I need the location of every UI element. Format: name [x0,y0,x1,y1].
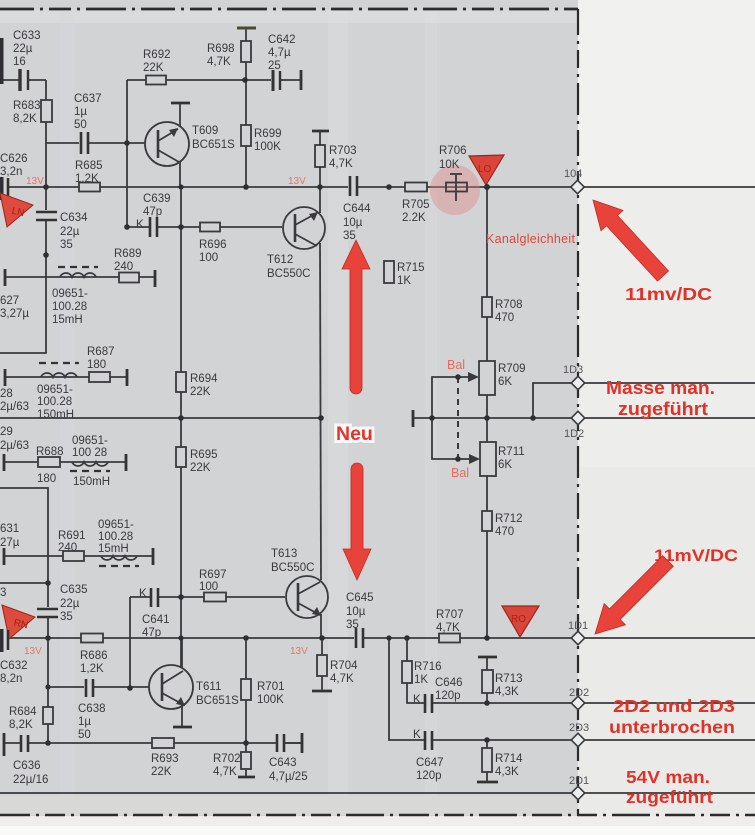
svg-text:2D3: 2D3 [569,722,589,734]
svg-text:Bal: Bal [447,358,465,372]
svg-text:3: 3 [0,587,6,599]
svg-text:1,2K: 1,2K [80,663,104,675]
svg-text:100K: 100K [254,141,281,153]
svg-text:K: K [136,219,144,231]
svg-text:4,7K: 4,7K [436,622,460,634]
wire vertical x=407 R716 [406,638,408,683]
wire filter row 3 y=462 [4,461,126,463]
svg-text:T609: T609 [192,125,218,137]
svg-text:R709: R709 [498,363,526,375]
wire vertical x=320 T612 collector/emitter chain [320,187,321,638]
wire T611 collector stub [181,638,183,668]
svg-text:54V man.: 54V man. [626,767,710,787]
svg-text:470: 470 [495,526,514,538]
svg-text:100.28: 100.28 [37,396,72,408]
wire vertical x=320 R703 [319,131,321,187]
resistor R712 [482,511,523,538]
svg-text:4,7K: 4,7K [330,673,354,685]
output triangle LO [469,155,504,185]
red label Masse man. zugefuehrt [606,378,715,419]
svg-text:R705: R705 [402,199,430,211]
label C628 left edge [0,388,29,413]
resistor R708 [482,297,523,324]
svg-text:R685: R685 [75,160,103,172]
svg-text:C636: C636 [13,760,41,772]
svg-text:T611: T611 [196,681,221,693]
svg-text:R693: R693 [151,753,179,765]
svg-text:11mv/DC: 11mv/DC [625,284,712,304]
inductor L631 09651-100.28 15mH [98,519,139,566]
svg-text:2D2: 2D2 [569,687,589,699]
resistor R716 [402,661,442,686]
capacitor C641 with K [139,588,170,639]
red label 11mv/DC [625,284,712,304]
svg-text:631: 631 [0,523,19,535]
svg-text:2µ/63: 2µ/63 [0,401,29,413]
svg-text:2µ/63: 2µ/63 [0,440,29,452]
svg-text:100.28: 100.28 [52,301,87,313]
capacitor C635 [37,584,88,623]
resistor R683 [13,100,52,125]
T-bar row1 right [154,270,157,287]
svg-text:100: 100 [199,581,218,593]
svg-text:R683: R683 [13,100,41,112]
label C631 left edge [0,523,20,549]
label C627 left edge [0,295,29,320]
svg-text:150mH: 150mH [37,409,74,421]
resistor R714 [482,748,523,778]
red label 2D2 und 2D3 unterbrochen [609,696,735,737]
svg-text:50: 50 [74,119,87,131]
svg-text:RO: RO [511,614,526,625]
wire vertical x=46 upper [0,80,46,353]
wire T609 collector stub [179,103,181,127]
svg-text:R694: R694 [190,373,218,385]
svg-text:4,7K: 4,7K [329,158,353,170]
svg-text:C643: C643 [269,757,297,769]
wiper arrow R711 [458,454,480,464]
resistor R691 [58,530,86,561]
resistor R694 [176,372,218,398]
svg-text:09651-: 09651- [52,288,88,300]
svg-text:8,2K: 8,2K [13,113,37,125]
svg-text:Bal: Bal [451,466,469,480]
wire C639/R696 row y=227 [127,226,282,228]
svg-text:3,2n: 3,2n [0,166,22,178]
wire vertical x=246 R698/R699 [245,28,247,187]
resistor R701 [241,679,285,706]
svg-text:C639: C639 [143,193,171,205]
wire node 1D3 branch y=383 [533,383,755,418]
capacitor C636 [4,733,48,786]
svg-text:47p: 47p [143,206,162,218]
pink highlight circle [430,165,480,215]
dashed bal link [457,377,459,459]
svg-text:C646: C646 [435,677,463,689]
label 13V top-left [26,176,44,187]
svg-text:1K: 1K [397,275,411,287]
node 1D3 diamond [563,364,585,390]
svg-text:100: 100 [199,252,218,264]
svg-text:29: 29 [0,426,13,438]
resistor R699 [241,125,282,153]
svg-text:10K: 10K [439,159,460,171]
svg-text:2D2 und 2D3: 2D2 und 2D3 [613,696,735,716]
svg-text:C638: C638 [78,703,106,715]
connector stub left edge top [0,38,4,84]
resistor R702 [213,752,251,778]
svg-text:27µ: 27µ [0,537,20,549]
svg-text:35: 35 [343,230,356,242]
wire T609 emitter stub [179,161,181,187]
svg-text:4,7µ/25: 4,7µ/25 [269,771,308,783]
svg-text:C644: C644 [343,203,371,215]
transistor T613 BC550C [271,548,328,618]
svg-text:28: 28 [0,388,13,400]
node 2D3 diamond [569,722,589,747]
T-bar row2 left [4,369,7,386]
svg-text:180: 180 [37,473,56,485]
svg-text:C642: C642 [268,34,296,46]
svg-text:Kanalgleichheit: Kanalgleichheit [486,232,576,246]
svg-text:C647: C647 [416,757,444,769]
wire 2D3 row y=740 [389,638,755,740]
svg-text:C641: C641 [142,614,170,626]
svg-text:R707: R707 [436,609,464,621]
svg-text:C626: C626 [0,153,28,165]
resistor R698 [207,41,251,68]
svg-text:120p: 120p [435,690,461,702]
svg-text:4,7K: 4,7K [213,766,237,778]
svg-text:240: 240 [114,261,133,273]
wire vertical x=487 R708..R712 chain [486,187,488,638]
red label Kanalgleichheit [486,232,576,246]
trimmer R711 [480,442,525,476]
svg-text:104: 104 [564,168,582,180]
svg-text:4,3K: 4,3K [495,686,519,698]
node 1D2 diamond [564,411,585,440]
ground bar R702 [238,776,255,779]
svg-text:150mH: 150mH [73,476,110,488]
resistor R695 [176,447,218,474]
capacitor C645 [346,592,374,648]
resistor R686 [80,634,108,676]
svg-text:C645: C645 [346,592,374,604]
svg-text:C632: C632 [0,660,28,672]
capacitor C646 with K [413,677,463,713]
resistor R684 [9,706,53,731]
svg-text:R711: R711 [498,446,525,458]
svg-text:C635: C635 [60,584,88,596]
svg-text:120p: 120p [416,770,442,782]
transistor T611 BC651S [149,665,239,709]
svg-text:R691: R691 [58,530,86,542]
svg-text:15mH: 15mH [98,543,129,555]
resistor R693 [151,738,179,778]
resistor R689 [114,248,142,283]
svg-text:22K: 22K [151,766,172,778]
svg-text:K: K [413,694,421,706]
dash-dot frame bottom [0,814,755,817]
T-bar row1 left [4,269,7,286]
svg-text:R708: R708 [495,299,523,311]
svg-text:22µ: 22µ [13,43,33,55]
svg-text:6K: 6K [498,459,512,471]
wire vertical x=127 R692 corner [126,80,128,227]
resistor R707 [436,609,464,643]
resistor R713 [482,670,523,698]
supply bar T609 collector [171,102,190,105]
red arrow up at C644 [342,240,370,394]
node 104 diamond [564,168,584,194]
wire y=583 stub [0,582,48,584]
capacitor C638 [78,679,106,741]
svg-text:25: 25 [268,60,281,72]
svg-text:1,2K: 1,2K [75,173,99,185]
T-bar mid rail left end [412,410,415,427]
wire vertical x=487 R713 [486,657,488,703]
svg-text:8,2K: 8,2K [9,719,33,731]
svg-text:R698: R698 [207,43,235,55]
resistor R715 [384,261,425,287]
svg-text:R688: R688 [36,446,64,458]
resistor R696 [199,223,227,265]
wire C638 base row y=687 [48,686,149,688]
wire bal bracket [432,377,458,459]
svg-text:4,3K: 4,3K [495,766,519,778]
svg-text:R695: R695 [190,449,218,461]
svg-text:10µ: 10µ [343,217,363,229]
svg-text:C633: C633 [13,30,41,42]
svg-text:13V: 13V [26,176,44,187]
wire C637 base row y=143 [46,142,145,144]
svg-text:13V: 13V [288,176,306,187]
svg-text:R692: R692 [143,49,171,61]
inductor L627 09651-100.28 15mH [52,267,98,326]
svg-text:10µ: 10µ [346,606,366,618]
svg-text:R712: R712 [495,513,523,525]
inductor L628 09651-100.28 150mH [37,363,79,421]
svg-text:Neu: Neu [336,423,373,445]
svg-text:35: 35 [60,239,73,251]
svg-text:2D1: 2D1 [569,775,589,787]
svg-text:zugeführt: zugeführt [626,787,713,807]
node 2D2 diamond [569,687,589,710]
wire vertical x=181 supply chain [180,187,182,668]
svg-text:R699: R699 [254,128,282,140]
svg-text:35: 35 [346,619,359,631]
svg-text:R714: R714 [495,753,523,765]
svg-text:22µ: 22µ [60,598,80,610]
capacitor C639 with K [136,193,171,237]
svg-text:R716: R716 [414,661,442,673]
svg-text:Masse man.: Masse man. [606,378,715,398]
red arrow upper right 11mv/DC [593,200,669,281]
svg-text:R703: R703 [329,145,357,157]
svg-text:240: 240 [58,542,77,554]
resistor R685 [75,160,103,192]
wire R697 row y=597 [130,596,285,598]
svg-text:R697: R697 [199,569,227,581]
capacitor C643 [269,733,308,783]
svg-text:R713: R713 [495,673,523,685]
capacitor C644 [343,176,371,242]
red label 11mV/DC lower [654,546,738,565]
svg-text:35: 35 [60,611,73,623]
svg-text:BC651S: BC651S [192,139,235,151]
inductor L629 09651-100.28 150mH [70,435,110,488]
wire main 13V rail top y=187 [9,186,755,188]
svg-text:1K: 1K [414,674,428,686]
svg-text:BC550C: BC550C [267,268,310,280]
wire vertical x=246 R701/R702 [245,638,247,777]
svg-text:22µ/16: 22µ/16 [13,774,48,786]
svg-text:4,7µ: 4,7µ [268,47,291,59]
node 1D1 diamond [568,620,588,645]
svg-text:100 28: 100 28 [72,447,107,459]
transistor T609 BC651S [145,122,235,166]
label 13V top-mid [288,176,306,187]
wire 54V rail y=793 [0,792,755,794]
svg-text:C634: C634 [60,212,88,224]
wire mid rail right y=418 [413,417,755,419]
capacitor C637 [74,93,102,154]
T-bar row4 left [3,548,6,565]
svg-text:09651-: 09651- [98,519,134,531]
wire main 13V rail bottom y=638 [9,637,755,639]
label C629 left edge [0,426,29,452]
T-bar row3 right [125,454,128,471]
resistor R704 [317,655,358,685]
svg-text:R715: R715 [397,262,425,274]
svg-text:R704: R704 [330,660,358,672]
svg-text:1µ: 1µ [74,106,87,118]
capacitor C633 [13,30,41,91]
svg-text:100K: 100K [257,694,284,706]
svg-text:R706: R706 [439,145,467,157]
svg-text:R701: R701 [257,681,285,693]
wiper arrow R709 [458,372,479,382]
resistor R705 [402,183,430,225]
capacitor C647 with K [413,729,444,782]
svg-text:1D2: 1D2 [564,428,584,440]
svg-text:R696: R696 [199,239,227,251]
input triangle LN [0,193,33,227]
red label Neu [336,423,373,445]
wire 2D2 row y=703 [407,683,755,703]
node 2D1 diamond [569,775,589,800]
svg-text:6K: 6K [498,376,512,388]
svg-text:K: K [139,588,147,600]
capacitor C626 left edge [0,153,28,200]
svg-text:22K: 22K [190,462,211,474]
T-bar row4 right [152,548,155,565]
dash-dot frame top [0,8,578,11]
supply bar above R703 [312,130,329,133]
svg-text:LO: LO [478,164,492,175]
svg-text:470: 470 [495,312,514,324]
resistor R703 [315,145,357,170]
svg-text:1µ: 1µ [78,716,91,728]
svg-text:180: 180 [87,359,106,371]
svg-text:22K: 22K [190,386,211,398]
svg-text:K: K [413,729,421,741]
wire vertical x=48 lower [0,488,48,743]
svg-text:1D3: 1D3 [563,364,583,376]
red label 54V man. zugefuehrt [626,767,713,807]
svg-text:15mH: 15mH [52,314,83,326]
wire emitter row y=743 [5,742,302,744]
svg-text:2.2K: 2.2K [402,212,426,224]
svg-text:13V: 13V [290,646,308,657]
svg-text:R686: R686 [80,650,108,662]
svg-text:8,2n: 8,2n [0,673,22,685]
svg-text:100.28: 100.28 [98,531,133,543]
label Bal upper [447,358,465,372]
supply bar above R698 [237,27,256,30]
wire vertical x=322 R704 [321,638,323,691]
svg-text:R689: R689 [114,248,142,260]
svg-text:09651-: 09651- [37,384,73,396]
transistor T612 BC550C [267,207,325,280]
wire C633/R692 row y=80 [3,79,283,81]
label Bal lower [451,466,469,480]
svg-text:50: 50 [78,729,91,741]
svg-text:22K: 22K [143,62,164,74]
ground bar R704 [312,690,332,693]
trimmer R706 [439,145,467,201]
svg-text:BC651S: BC651S [196,695,239,707]
label left edge stub [0,587,6,599]
svg-text:zugeführt: zugeführt [618,399,708,419]
svg-text:47p: 47p [142,627,161,639]
label 13V bottom-mid [290,646,308,657]
resistor R688 [36,446,64,485]
svg-text:22µ: 22µ [60,226,80,238]
wire T611 emitter stub [181,705,183,727]
svg-text:unterbrochen: unterbrochen [609,717,735,737]
svg-text:627: 627 [0,295,19,307]
wire filter row 1 y=277 [5,276,155,278]
svg-text:3,27µ: 3,27µ [0,308,29,320]
capacitor C632 left edge [0,629,28,685]
wire vertical x=487 R714 [486,740,488,782]
svg-text:09651-: 09651- [72,435,108,447]
svg-text:BC550C: BC550C [271,562,314,574]
resistor R697 [199,569,227,602]
input triangle RN [2,605,35,639]
resistor R687 [87,346,115,382]
output triangle RO [502,606,539,637]
wire filter row 2 y=377 [5,376,127,378]
label 13V bottom-left [24,646,42,657]
dash-dot frame right [577,9,579,815]
svg-text:R684: R684 [9,706,37,718]
svg-text:R687: R687 [87,346,115,358]
svg-text:T613: T613 [271,548,297,560]
svg-text:13V: 13V [24,646,42,657]
svg-text:C637: C637 [74,93,102,105]
red arrow down at C645 [343,463,371,580]
T-bar row2 right [126,369,129,386]
wire filter row 4 y=556 [4,555,153,557]
svg-text:T612: T612 [267,254,293,266]
wire mid rail left y=418 [0,417,322,419]
resistor R692 [143,49,171,85]
capacitor C642 [268,34,301,91]
red arrow lower right 1D1 [595,556,673,634]
capacitor C634 [36,210,88,251]
